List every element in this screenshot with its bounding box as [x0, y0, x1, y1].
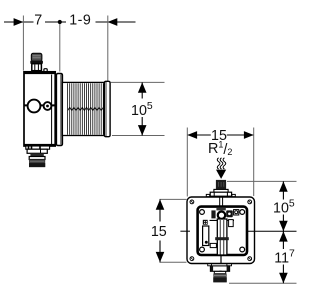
mid-left step [210, 243, 216, 247]
extension bottom [112, 135, 165, 137]
cap nut [32, 64, 42, 71]
corner screw TL [190, 200, 194, 204]
cap black band [30, 61, 43, 64]
outlet dark block [213, 274, 226, 283]
extension lines [23, 16, 107, 82]
small circle dot [46, 105, 49, 108]
bottom tabs [208, 264, 212, 266]
outlet neck [214, 271, 225, 273]
arrowhead right at x=23.4 [14, 18, 24, 26]
small circle [44, 102, 52, 110]
valve cap [31, 53, 42, 61]
right arrow down 2 [279, 273, 288, 283]
dimension line top [4, 21, 136, 23]
pipe below frame [220, 255, 222, 263]
outlet collar [210, 266, 229, 271]
left arrow up [156, 199, 165, 209]
right ext bottom [229, 282, 297, 284]
plate dot [205, 241, 208, 244]
dot on dim line [58, 20, 62, 24]
right ext top [227, 180, 297, 182]
inner frame thick [198, 207, 247, 255]
frame ear TL [200, 210, 205, 215]
extension lines 15 top [187, 128, 253, 197]
body top thick edge [24, 72, 56, 75]
left arrow down [156, 252, 165, 262]
mounting flange [56, 74, 62, 146]
valve circle [218, 212, 225, 219]
15 top dimension line [187, 134, 253, 136]
svg-text:7: 7 [34, 12, 42, 28]
arrowhead right [244, 131, 254, 139]
arrowhead left [187, 131, 197, 139]
right dim line 11^7 [282, 231, 284, 283]
right small detail in frame [229, 220, 234, 227]
box top small tabs [206, 194, 209, 196]
frame ear BR [240, 247, 245, 252]
thread zigzag band [68, 107, 104, 110]
right dim line 10^5 [282, 181, 284, 231]
crossbar [215, 237, 229, 240]
connector step 4 white band [29, 157, 45, 160]
left 15 dim line [159, 199, 161, 262]
center tick left [180, 230, 190, 232]
right arrow down 1 [279, 221, 288, 231]
left plate [203, 226, 209, 246]
right arrow up 1 [279, 181, 288, 191]
right arrow up 2 [279, 231, 288, 241]
frame ear TR [240, 210, 245, 215]
big circle [28, 100, 41, 113]
central channel [217, 219, 227, 255]
small tab right [44, 69, 47, 72]
horizontal assembly line [210, 219, 235, 221]
far right detail [234, 210, 239, 215]
center extension right [248, 230, 297, 232]
protection box outer [187, 197, 255, 264]
svg-text:15: 15 [151, 224, 167, 240]
pipe stub dark [216, 180, 226, 190]
stub flange [210, 192, 231, 196]
dim line vertical [141, 82, 143, 135]
body mid band [24, 104, 55, 106]
corner screw BR [248, 257, 252, 261]
connector step 3 dark band [30, 153, 43, 156]
thread lines [68, 83, 104, 134]
body bottom thick edge [24, 144, 56, 146]
arrow down [138, 125, 147, 135]
body [24, 72, 55, 146]
connector step 2 [27, 149, 47, 153]
left dark square [203, 220, 208, 225]
solid down arrow [216, 170, 226, 179]
cylinder end ring [104, 81, 110, 136]
connector below body: step row 1 [26, 146, 50, 149]
water squiggle [217, 158, 226, 169]
body inner vertical line [51, 75, 53, 145]
supply pipe into box [220, 197, 223, 209]
corner screw TR [248, 200, 252, 204]
arrow up [138, 82, 147, 92]
left 15 dimension extension top [160, 198, 187, 200]
corner screw BL [190, 257, 194, 261]
frame ear BL [200, 247, 205, 252]
stub base [214, 189, 228, 192]
arrowhead left at x=107.5 [108, 18, 118, 26]
mechanism top bits [216, 207, 225, 210]
mechanism left block [211, 210, 215, 218]
connector nut dark [29, 160, 45, 168]
right blob [226, 210, 233, 217]
threaded cylinder outline [62, 82, 104, 135]
10^5 dimension (left view) extension top [111, 81, 165, 83]
left 15 extension bottom [160, 261, 187, 263]
collar mid mark [219, 271, 221, 273]
svg-text:1-9: 1-9 [69, 12, 91, 28]
